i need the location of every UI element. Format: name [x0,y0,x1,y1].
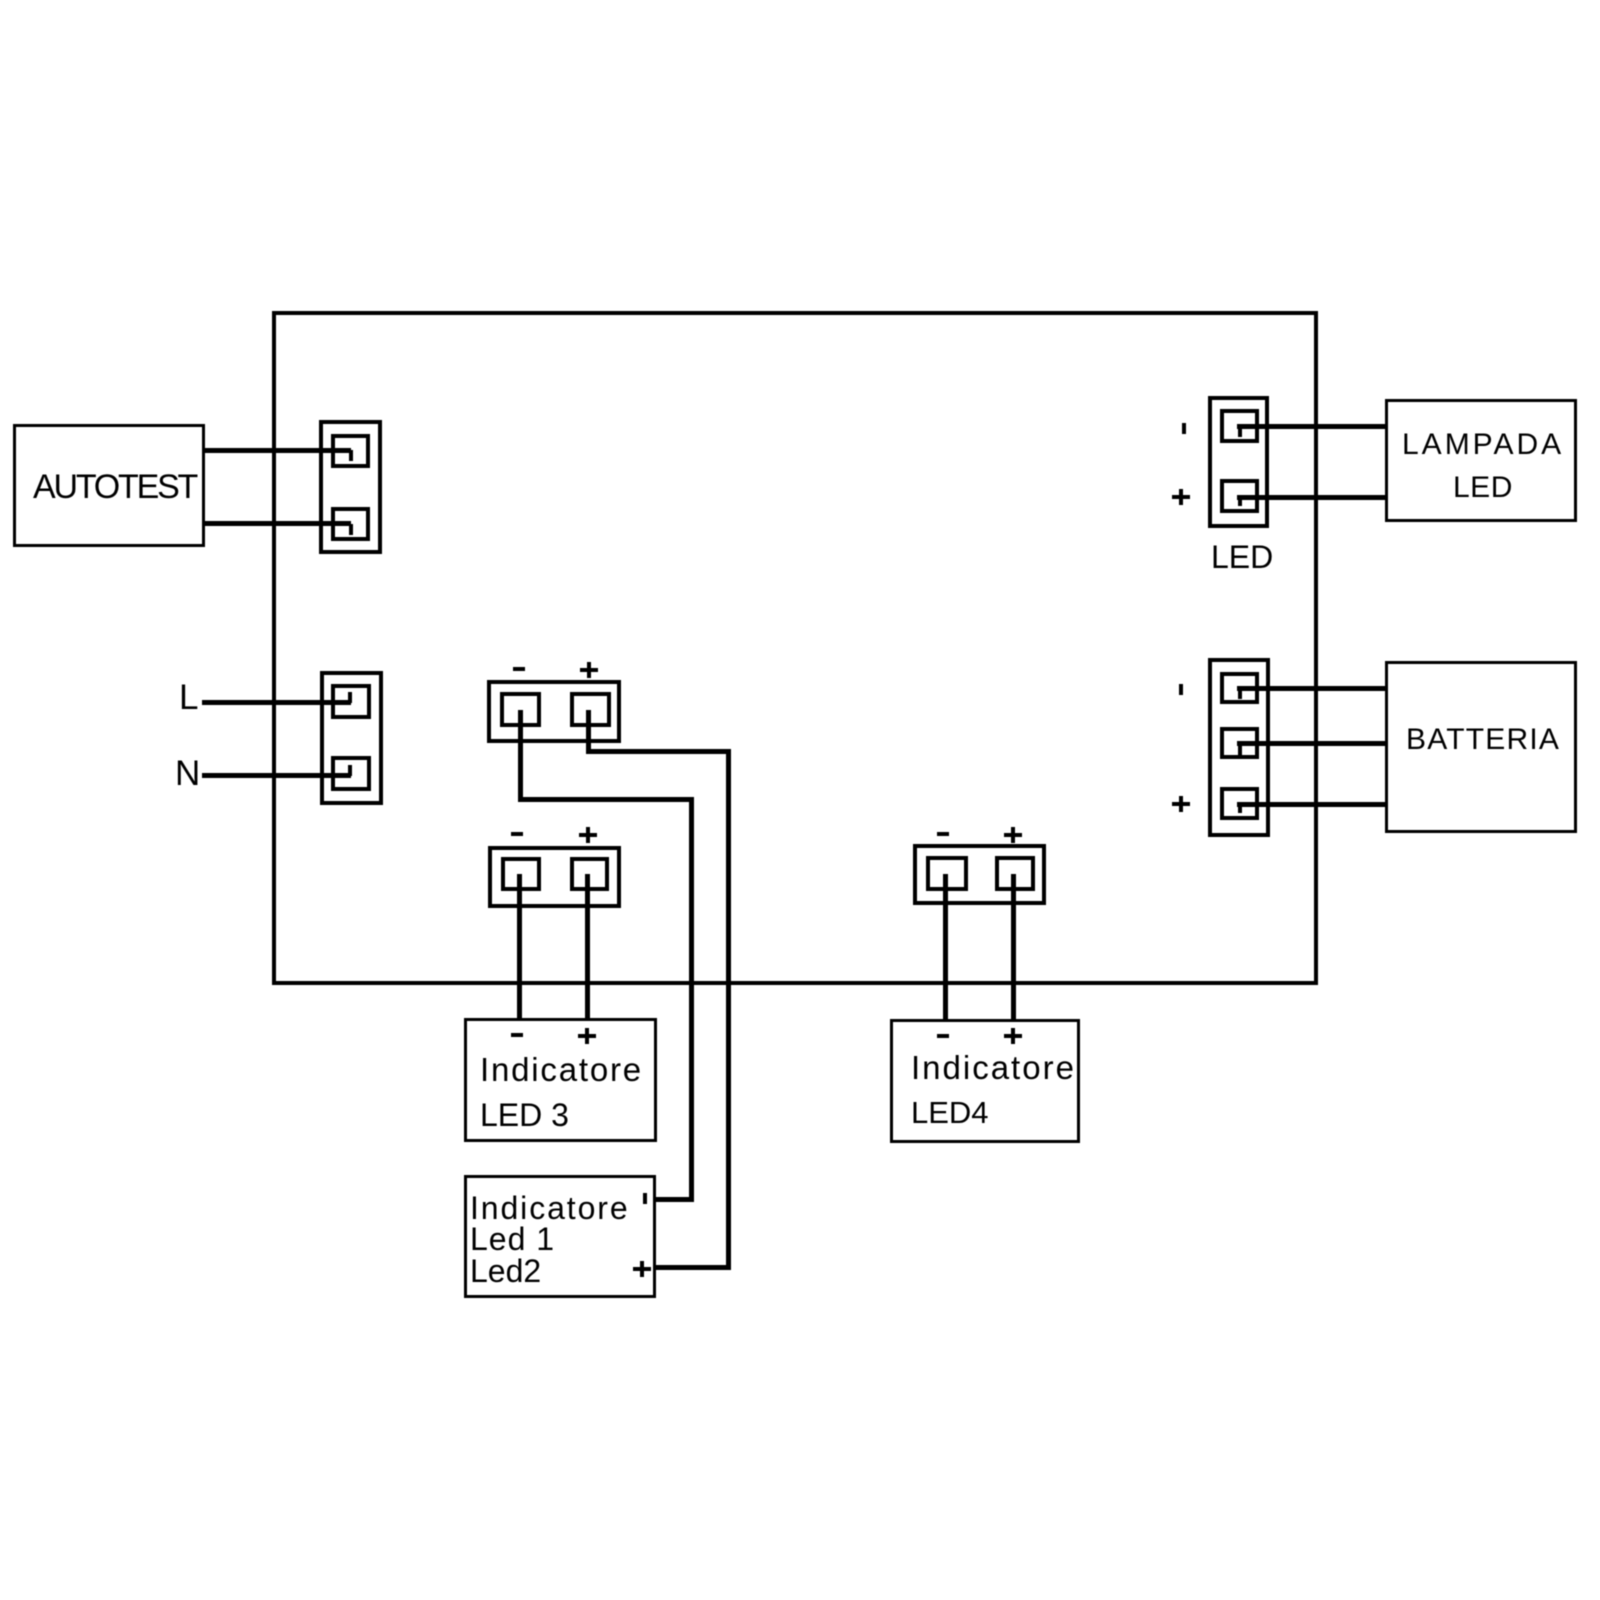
terminal tick L [348,692,352,703]
wire CN2 pin2 to LAMPADA box [1237,495,1386,500]
BATTERIA box [1385,661,1577,833]
CN1 pin 2 [331,507,370,541]
CN1 pin 1 [331,434,370,468]
minus tick label Led12 box [643,1193,647,1204]
Indicatore LED 3 box [464,1018,657,1142]
plus label CN6 [1172,802,1190,806]
connector CN3 outer [487,680,621,743]
wire N [202,773,351,778]
minus label CN5 [937,832,949,836]
terminal tick N [348,765,352,776]
wire AUTOTEST pin2 [203,521,351,526]
plus label CN3 [580,668,598,672]
Led 1 text [470,1223,555,1255]
CN6 pin 2 [1220,727,1259,759]
wire CN6 pin2 to BATTERIA box [1237,741,1386,746]
LAMPADA LED box [1385,399,1577,522]
CN2 pin 2 [1220,479,1259,513]
CN6 pin 1 [1220,672,1259,704]
terminal tick CN6 pin1 [1238,688,1242,699]
LED 3 text [480,1099,569,1131]
wire CN3 right pin to Indicatore Led1/2 plus terminal [586,710,591,754]
minus label CN3 [513,667,525,671]
AUTOTEST box [13,424,205,547]
Indicatore LED3 text [480,1053,643,1086]
wire AUTOTEST pin1 [203,448,351,453]
CN5 pin left [926,856,968,891]
BATTERIA label [1406,725,1560,755]
wire CN4 right pin down to LED3 box [585,874,590,1021]
terminal tick CN6 pin2 [1238,744,1242,755]
connector CN5 outer [913,844,1046,905]
wire CN2 pin1 to LAMPADA box [1237,424,1386,429]
Indicatore Led1 Led2 box [464,1175,656,1299]
LED connector label [1211,541,1273,573]
CN3 pin left [500,692,541,727]
wire L [202,700,351,705]
minus label LED4 box [937,1034,949,1038]
terminal tick AUTOTEST pin1 [349,450,353,461]
LED4 text [911,1097,989,1128]
wire CN6 pin3 to BATTERIA box [1237,802,1386,807]
wire CN5 left pin down to LED4 box [943,874,948,1021]
plus label LED3 box [578,1034,596,1038]
terminal tick CN2 pin1 [1238,426,1242,437]
plus label Led12 box [633,1267,651,1271]
wire CN5 right pin down to LED4 box [1011,874,1016,1021]
CN7 pin L [331,684,371,719]
terminal tick CN2 pin2 [1238,496,1242,506]
minus label CN4 [511,832,523,836]
CN5 pin right [995,856,1035,891]
Indicatore LED4 text [911,1051,1076,1084]
CN3 pin right [570,692,611,727]
LAMPADA LED second line [1453,473,1513,503]
connector CN6 BATTERIA outer [1208,658,1270,837]
CN4 pin left [501,857,541,891]
wire CN4 left pin down to LED3 box [517,874,522,1021]
connector CN2 LED outer [1208,396,1269,528]
plus label CN4 [579,833,597,837]
terminal tick CN6 pin3 [1238,803,1242,813]
wire CN6 pin1 to BATTERIA box [1237,686,1386,691]
Led2 text [470,1255,541,1287]
minus tick label CN2 [1182,423,1186,434]
LAMPADA label [1402,430,1564,460]
terminal tick AUTOTEST pin2 [349,524,353,535]
connector CN4 outer [488,846,621,908]
CN7 pin N [331,756,371,791]
Indicatore LED4 box [890,1019,1080,1143]
CN2 pin 1 [1220,409,1259,443]
connector CN1 AUTOTEST outer [319,420,382,554]
plus label LED4 box [1004,1034,1022,1038]
main board rectangle [272,311,1318,985]
minus label LED3 box [511,1033,523,1037]
CN4 pin right [570,857,609,891]
plus label CN2 [1172,495,1190,499]
label N [175,756,200,791]
minus tick label CN6 [1179,684,1183,695]
label L [179,680,198,715]
AUTOTEST label [33,470,196,504]
Indicatore Led12 text [470,1192,630,1224]
CN6 pin 3 [1220,787,1259,820]
plus label CN5 [1004,833,1022,837]
wire CN3 left pin to Indicatore Led1/2 upper terminal [518,710,523,802]
connector CN7 L/N outer [320,671,383,805]
